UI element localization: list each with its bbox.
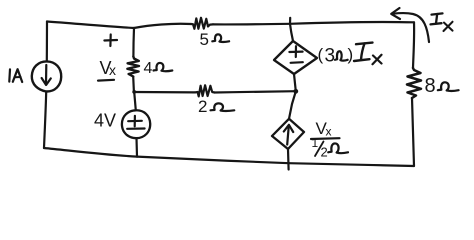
- label 4V: [94, 111, 116, 131]
- resistor 5ohm: [191, 18, 213, 29]
- wire bottom left: [44, 148, 137, 157]
- node B junction dot: [132, 90, 136, 94]
- resistor 2ohm: [195, 85, 215, 96]
- wire middle-branch junction to 5-ohm resistor: [134, 24, 191, 28]
- wire diamond to node C: [294, 74, 296, 91]
- label Ix: [431, 13, 453, 31]
- resistor 8ohm: [407, 68, 421, 98]
- wire 5-ohm resistor to node A: [213, 23, 290, 26]
- label 4ohm: [144, 60, 173, 77]
- svg-text:x: x: [326, 125, 332, 139]
- wire bottom middle: [137, 157, 289, 164]
- label 8ohm: [425, 75, 459, 97]
- node C junction dot: [293, 89, 298, 94]
- wire node C down to current-controlled diamond: [289, 91, 296, 119]
- label Vx: [98, 58, 116, 81]
- wire 4V source to bottom wire: [135, 138, 138, 156]
- wire node A to top-right corner: [290, 22, 414, 24]
- svg-text:2: 2: [321, 145, 328, 160]
- dependent source (3ohm)Ix diamond: [274, 41, 317, 74]
- wire diamond to bottom wire with tail: [287, 149, 290, 170]
- label 5ohm: [200, 30, 230, 49]
- wire bottom right: [289, 163, 414, 166]
- wire middle branch top: [132, 28, 135, 57]
- wire right side upper: [413, 22, 414, 68]
- svg-text:5: 5: [200, 30, 209, 49]
- svg-text:(: (: [318, 45, 324, 64]
- svg-text:8: 8: [425, 75, 436, 97]
- wire node B to 4V source: [134, 92, 136, 110]
- polarity plus for Vx: [104, 35, 117, 47]
- svg-text:x: x: [109, 62, 116, 78]
- voltage source 4V: [122, 110, 150, 138]
- wire right side lower: [412, 98, 414, 166]
- wire left side upper: [46, 22, 48, 62]
- node A junction with overshoot tick: [289, 18, 291, 24]
- wire node A down to dependent source diamond: [290, 24, 293, 41]
- svg-text:1: 1: [312, 136, 319, 150]
- label 1A: [9, 69, 22, 82]
- svg-text:2: 2: [198, 97, 207, 116]
- wire left side lower: [44, 92, 46, 149]
- current arrow Ix: [391, 8, 429, 42]
- dependent source Vx/halfohm diamond: [272, 119, 304, 149]
- wire middle node B to 2-ohm: [134, 91, 195, 94]
- wire 2-ohm to node C: [215, 91, 296, 92]
- svg-text:3: 3: [325, 46, 336, 67]
- current source 1A: [32, 61, 61, 91]
- label (3ohm)Ix: [318, 43, 382, 67]
- svg-text:4V: 4V: [94, 111, 116, 131]
- label 2ohm: [198, 97, 234, 116]
- label Vx over half-ohm: [311, 119, 348, 160]
- wire 4-ohm to node B: [132, 77, 135, 92]
- svg-text:): ): [348, 45, 354, 64]
- svg-text:4: 4: [144, 60, 153, 77]
- wire top-left to middle-branch junction: [47, 22, 134, 29]
- resistor 4ohm: [127, 57, 139, 77]
